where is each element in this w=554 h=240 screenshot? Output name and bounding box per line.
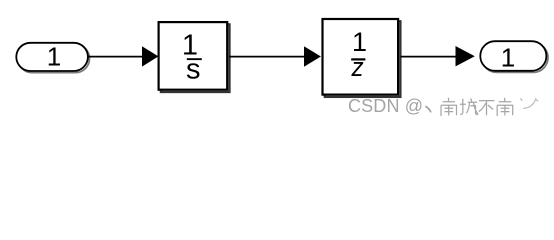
- wire from In1 to Integrator: [89, 56, 146, 58]
- watermark swirl icon: [521, 99, 538, 109]
- watermark glyph Bu (not): [479, 101, 495, 116]
- arrowhead into Integrator: [142, 46, 158, 66]
- watermark ideographic comma: [426, 107, 431, 112]
- unit delay block shadow: [325, 21, 401, 97]
- svg-text:1: 1: [47, 42, 61, 72]
- integrator block 1/s: [159, 22, 228, 90]
- svg-text:CSDN @: CSDN @: [348, 96, 423, 116]
- outport Out1: [480, 41, 546, 71]
- integrator fraction bar: [187, 58, 202, 60]
- outport Out1 shadow: [482, 43, 548, 73]
- inport In1 shadow: [18, 44, 90, 72]
- wire from Integrator to Unit Delay: [229, 56, 307, 58]
- watermark glyph Cheng (city): [460, 98, 478, 115]
- watermark glyph Nan2 (south): [497, 98, 513, 116]
- unit delay block 1/z: [323, 19, 399, 95]
- arrowhead into Unit Delay: [304, 46, 321, 67]
- svg-text:1: 1: [501, 42, 515, 72]
- unit delay fraction bar: [351, 58, 365, 60]
- svg-text:z: z: [351, 53, 364, 82]
- arrowhead into Out1: [456, 46, 475, 66]
- inport In1: [16, 43, 88, 71]
- integrator block shadow: [161, 24, 230, 92]
- svg-text:s: s: [186, 53, 201, 85]
- watermark glyph Nan (south): [441, 98, 457, 116]
- watermark text CSDN @: [348, 96, 423, 116]
- wire from Unit Delay to Out1: [401, 56, 460, 58]
